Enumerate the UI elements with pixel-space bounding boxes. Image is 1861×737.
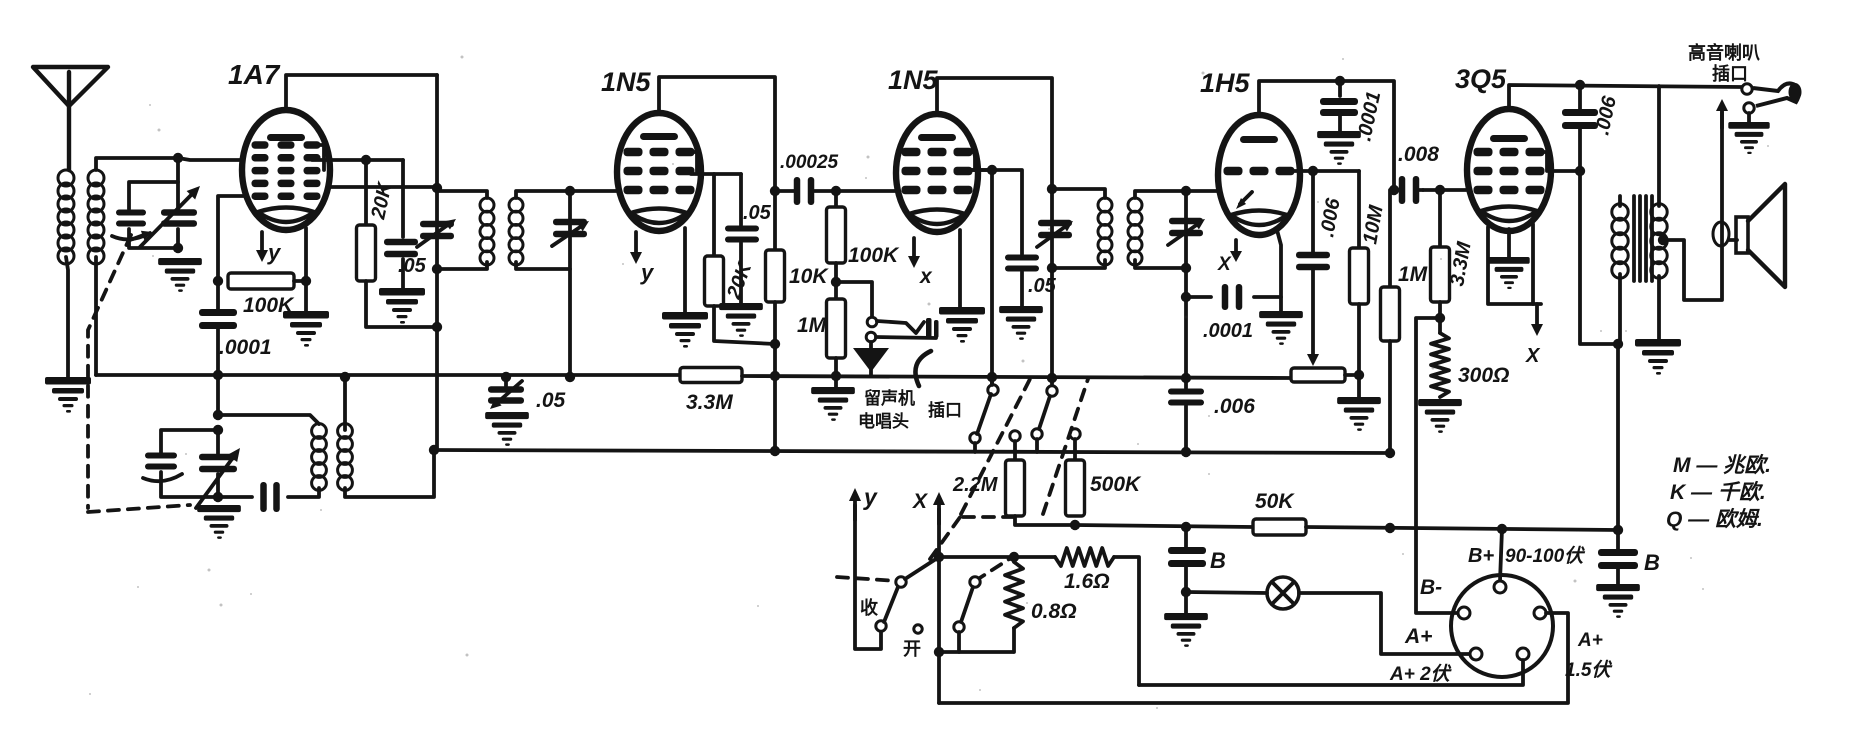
node C19 busB [1181,447,1191,457]
label V5 3Q5 [1455,64,1507,94]
wire R6 to R7 [834,263,838,299]
terminal SW1 up-a [988,385,998,395]
svg-text:X: X [912,490,929,513]
svg-text:3.3M: 3.3M [686,391,733,414]
node R4 join [770,339,780,349]
battery plug P1 [1451,575,1553,677]
tube V4 1H5 [1218,115,1300,235]
wire trimmer loop [129,158,178,248]
terminal SW1 low-1 [970,433,980,452]
terminal jack sleeve [866,332,876,342]
wire R12 R13 bottom [1015,516,1075,525]
capacitor C3 .0001 [199,309,237,329]
ground R7 [811,387,855,421]
coil T5 primary [1612,204,1628,278]
node R13 bottom [1070,520,1080,530]
wire V1 top cap [286,75,437,111]
wire speaker return [1663,112,1722,300]
resistor R8 10M [1350,171,1369,304]
arrow jack pickup [853,342,889,376]
node IF1 sec top [565,186,575,196]
resistor R11 1M [1381,190,1400,453]
arc pointer [915,351,931,386]
wire C13 down [1020,272,1024,306]
capacitor C20 .008 [1399,176,1420,204]
node V3 screen [987,165,997,175]
svg-text:高音喇叭: 高音喇叭 [1688,42,1760,63]
capacitor C13 .05 [1005,255,1039,272]
wire screen cap drop [401,160,405,237]
terminal jack tip [867,317,877,327]
ground tuning cap [158,258,202,292]
wire y line [855,505,881,649]
wire V5 plate [1549,169,1580,173]
label C16 .0001 [1353,89,1385,143]
label R14 50K [1255,490,1295,513]
wire V1 lower grid exit [218,196,246,281]
svg-text:X: X [1217,254,1232,275]
node plate busB cross [770,446,780,456]
wire C23 ground [1616,568,1620,584]
node X j2 [934,647,944,657]
arrow speaker line [1716,99,1728,128]
node screen bus cross [987,372,997,382]
core T5 [1634,196,1652,281]
coil T2 secondary [509,198,523,265]
ground V5 filament [1488,257,1529,289]
node V2 plate line [770,186,780,196]
svg-text:1H5: 1H5 [1200,68,1251,98]
label R9 3.3M [1446,239,1476,288]
node IF1 top [432,183,442,193]
node R9 bottom [1435,313,1445,323]
node sec tap [1658,235,1668,245]
label B- [1420,576,1442,599]
svg-text:y: y [863,484,878,510]
svg-text:B: B [1644,550,1660,575]
svg-text:留声机: 留声机 [864,388,915,408]
wire X line [937,509,941,703]
wire IF2 primary line [1050,189,1054,384]
ground VR1 [1337,397,1381,431]
wire flag cap stub [504,377,508,386]
node R2 bottom junction [432,322,442,332]
label R8 10M [1359,202,1388,245]
tweeter plug [1753,83,1802,106]
antenna coil L1 secondary [88,170,104,264]
capacitor C12 .00025 [794,177,815,205]
wire V2 cathode [683,228,687,312]
label R2 20K [367,179,397,222]
label R5 10K [789,265,829,288]
svg-text:.0001: .0001 [1203,320,1253,342]
switch blade 3 [884,587,898,622]
resistor R14 50K [1253,519,1306,535]
wire V2 top cap [659,77,775,191]
svg-text:1M: 1M [797,314,827,337]
svg-text:3Q5: 3Q5 [1455,64,1507,94]
label R13 500K [1090,473,1142,496]
variable capacitor C6 IF1 secondary [552,219,589,246]
tube V3 1N5 [896,114,978,232]
wire wiper line [1311,171,1315,253]
wire screen branch [712,174,716,256]
label V2 1N5 [601,67,652,97]
capacitor C23 B right [1598,530,1638,569]
label R1 100K [243,294,295,317]
node osc bus [213,370,223,380]
label tweeter [1688,42,1760,84]
wire V3 screen exit [969,170,992,384]
wire grid line to 1A7 [178,158,243,160]
wire plate to OPT [1580,171,1618,344]
ground V3 [939,307,985,343]
wire osc trimmer loop [161,430,218,497]
wire fil to 1.6 [939,555,1055,559]
arrow wiper [1307,269,1319,366]
svg-text:.006: .006 [1214,395,1255,418]
label C19 .006 [1214,395,1255,418]
coil T4 secondary [1128,198,1142,265]
svg-text:1M: 1M [1398,263,1428,286]
pin B+ [1494,581,1506,593]
label A+15 [1565,630,1613,681]
variable capacitor C5 IF1 primary [417,219,456,247]
label C13 .05 [1028,275,1057,297]
switch blade 1 [977,394,991,434]
svg-text:.0001: .0001 [219,336,272,359]
speaker LS1 [1736,184,1785,287]
wire VR1 right [1345,375,1359,397]
node C2 bottom [173,243,183,253]
wire R9 bottom [1438,302,1442,333]
svg-text:.05: .05 [743,202,772,224]
svg-text:300Ω: 300Ω [1458,364,1509,387]
resistor R3 3.3M [680,368,742,383]
ground C7 [485,412,529,446]
trimmer capacitor C8 [143,453,182,482]
svg-text:0.8Ω: 0.8Ω [1031,600,1077,623]
wire voice coil lead [1729,238,1737,242]
variable capacitor C2 tuning [161,209,197,227]
svg-text:2.2M: 2.2M [952,474,999,496]
resistor R16 1.6 [1055,548,1114,566]
capacitor C18 .0001 [1222,284,1243,310]
svg-text:B: B [1210,548,1226,573]
wire B minus branch [1416,318,1458,613]
label C17 .006 [1316,196,1345,239]
IF transformer T2 primary rail [437,191,487,269]
node Bcap2 corner [1613,525,1623,535]
lamp DS1 [1267,577,1299,609]
terminal SW3 a [954,622,964,652]
loop flexible lead [1713,222,1729,246]
capacitor C16 .0001 [1320,81,1358,131]
wire plate line v [1578,85,1582,171]
label C18 .0001 [1203,320,1253,342]
label legend K [1670,480,1766,504]
node grid tap [173,153,183,163]
svg-text:A+: A+ [1404,625,1432,648]
wire to V3 grid [836,189,895,193]
wire B+ pin [1500,529,1502,581]
wire B+ bus (bus B) [434,450,1390,453]
variable capacitor C15 IF2 secondary [1168,218,1205,245]
svg-text:B+: B+ [1468,545,1494,567]
arrow V5 filament X [1525,304,1543,367]
svg-text:1.6Ω: 1.6Ω [1064,570,1110,593]
wire C4 to ground [401,259,405,288]
capacitor C10 padder [260,482,280,512]
variable capacitor C9 osc tuning [199,454,237,473]
arrow V1 filament y [256,232,282,265]
variable capacitor C14 IF2 primary [1037,220,1073,247]
node R7 bus [831,371,841,381]
node osc trim [213,425,223,435]
resistor R9 3.3M [1431,190,1450,302]
IF transformer T2 secondary rail [516,191,570,269]
terminal tweeter sleeve [1744,103,1754,113]
wire grid to V2 [570,189,617,193]
capacitor C21 .006 [1562,109,1598,129]
wire gang dashed left [88,235,190,512]
label legend Q [1666,507,1763,531]
label R6 100K [848,244,900,267]
tube V1 1A7 [242,110,330,230]
wire R7 to ground [834,358,838,387]
ground C11 [719,303,763,337]
resistor R6 100K [827,191,846,263]
label V1 1A7 [228,59,281,90]
svg-text:90-100伏: 90-100伏 [1505,545,1586,567]
node 3.3M top [1435,185,1445,195]
svg-text:开: 开 [903,639,921,659]
wire osc coil top rail [218,415,319,424]
wire R1 right to cathode line [294,279,306,283]
pin B- [1458,607,1470,619]
node 100K left [213,276,223,286]
label V3 1N5 [888,65,939,95]
node osc top [213,410,223,420]
terminal SW3 b [970,577,980,587]
wire V1 grid exit right [312,158,403,162]
wire plate line V1 [435,75,439,450]
label legend M [1673,453,1771,477]
terminal SW1 low-3 [1032,429,1042,452]
arrow C9 [196,448,240,508]
switch blade 4 [961,587,973,622]
svg-text:1.5伏: 1.5伏 [1565,659,1613,681]
terminal SW2 b [896,577,906,587]
wire R4 bottom [714,306,775,344]
label R4 20K [723,258,757,302]
ground C23 [1596,584,1640,618]
node R6 bottom [831,277,841,287]
wire diode line to V4 [1186,189,1220,193]
wire A- return [939,613,1568,703]
capacitor C4 .05 [384,239,418,258]
wire V1 plate to IF1 [328,185,437,189]
capacitor C7 .05 flag [488,381,524,409]
capacitor C22 B [1168,527,1206,567]
label C3 .0001 [219,336,272,359]
wire OPT secondary bottom [1657,276,1661,339]
ground V2 [662,312,708,348]
ground C13 [999,306,1043,340]
wire .0001 series line [1186,295,1281,299]
wire IF2 secondary line [1184,191,1188,378]
wire .0001 down [216,281,220,375]
pin A+2 [1470,648,1482,660]
wire V4 cathode [1277,230,1281,311]
wire V4 grid exit [1294,169,1359,173]
wire antenna coil top tap [96,158,178,170]
svg-text:x: x [919,265,933,288]
node R11 top [1389,185,1399,195]
node Bcap top [1181,522,1191,532]
node IF1 sec bus [565,372,575,382]
svg-text:A+: A+ [1577,630,1603,651]
wire OPT feed [1616,344,1620,530]
node X j1 [934,552,944,562]
node series cap left [1181,292,1191,302]
wire osc line [216,375,220,497]
svg-text:.00025: .00025 [780,152,839,173]
wire lamp left [1186,592,1267,593]
terminal SW3 off [914,625,922,633]
arrow supply y [849,484,878,520]
svg-text:50K: 50K [1255,490,1295,513]
antenna coil L1 primary [58,170,74,264]
node fil j3 [1009,552,1019,562]
wire V5 fil center [1507,229,1511,257]
resistor R12 2.2M [1006,460,1025,516]
wire L1 primary bottom to ground [66,257,68,377]
svg-text:B-: B- [1420,576,1442,599]
node Bcap bottom [1181,587,1191,597]
resistor R7 1M [827,299,846,358]
wire 1.6 to corner [1114,557,1139,685]
node detector grid [831,186,841,196]
node VR1 right [1354,370,1364,380]
node wiper line [1308,166,1318,176]
node osc plate bus [340,372,350,382]
svg-text:Q — 欧姆.: Q — 欧姆. [1666,507,1763,531]
ground C4 [379,288,425,324]
label C11 .05 [743,202,772,224]
capacitor C11 .05 [725,226,759,243]
svg-text:A+ 2伏: A+ 2伏 [1389,663,1453,685]
IF transformer T4 secondary rail [1135,191,1186,268]
label C12 .00025 [780,152,839,173]
node C16 tap [1335,76,1345,86]
label R16 1.6 [1064,570,1110,593]
arrow V2 filament y [630,232,655,285]
wire tweeter ground [1747,113,1751,122]
ground V4 [1259,311,1303,345]
capacitor C19 .006 [1168,378,1204,406]
svg-text:收: 收 [860,597,878,618]
trimmer capacitor C1 [112,210,152,241]
wire R2 bottom [366,281,437,327]
svg-text:X: X [1525,345,1541,367]
label R11 1M [1398,263,1428,286]
ground osc [197,505,241,539]
wire V1 cathode down [304,228,308,311]
label R10 300 [1458,364,1509,387]
wire .05 second branch [969,170,1022,254]
node IF2 sec bottom [1181,263,1191,273]
pin A+15 [1517,648,1529,660]
label R15 0.8 [1031,600,1077,623]
resistor R1 100K [228,273,294,289]
coil T2 primary [480,198,494,265]
switch blade 2 [1039,396,1050,429]
wire V2 plate line down [766,191,785,451]
label R7 1M [797,314,827,337]
svg-text:插口: 插口 [928,400,962,420]
wire AVC bus mid [742,376,1291,378]
label A+2 [1389,663,1453,685]
svg-text:500K: 500K [1090,473,1142,496]
wire V5 top cap [1509,85,1742,109]
node IF2 bus cross [1047,373,1057,383]
wire SW2b stub [905,557,939,579]
resistor R2 20K [357,160,376,281]
resistor R10 300ohm [1431,333,1449,397]
arrow supply X [912,490,945,524]
label R12 2.2M [952,474,999,496]
wire osc plate top [343,377,347,430]
svg-text:插口: 插口 [1712,63,1748,84]
resistor R4 20K [705,256,724,306]
wire V3 top cap [937,78,1052,189]
coil T5 secondary [1651,204,1667,278]
node .006 bus [1181,373,1191,383]
wire A+15 return [1139,660,1523,685]
wire V2 screen exit [691,172,741,176]
label C4 .05 [398,255,427,277]
terminal tweeter tip [1742,84,1752,94]
wire C12 right [775,189,836,193]
label shou [860,597,878,618]
label C7 .05 [536,389,566,412]
resistor R13 500K [1066,460,1085,516]
ground OPT [1635,339,1681,375]
wire AVC bus left [96,373,680,377]
node C9 bottom [213,492,223,502]
wire V3 cathode [958,230,962,307]
svg-text:y: y [640,260,655,285]
svg-text:电唱头: 电唱头 [858,411,909,431]
ground antenna primary [45,377,91,413]
terminal SW1 low-4 [1070,429,1080,460]
wire 50K line [1075,525,1253,527]
node IF2 top [1047,184,1057,194]
ground R10 [1418,399,1462,433]
terminal SW1 up-b [1047,386,1057,396]
wire V4 top cap [1259,81,1394,190]
svg-text:10K: 10K [789,265,829,288]
svg-text:1N5: 1N5 [888,65,939,95]
wire fil bottom rail [939,650,1013,654]
node R1 right [301,276,311,286]
tube V2 1N5 [617,113,701,231]
antenna [33,67,108,170]
node flag cap [501,372,511,382]
wire .05 branch [739,174,743,225]
svg-text:K — 千欧.: K — 千欧. [1670,480,1766,504]
